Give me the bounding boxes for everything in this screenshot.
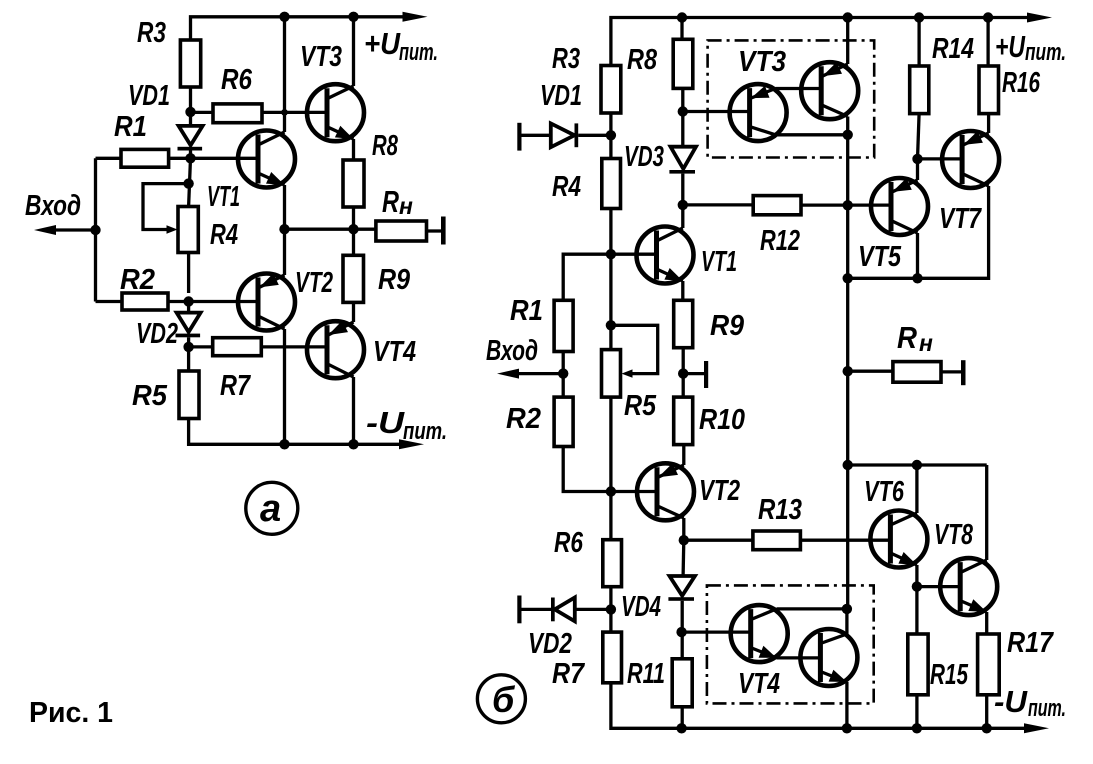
output junction VT1/VT2 emitters (a): [279, 224, 289, 234]
node R4/R1/VT1 base (б): [606, 249, 616, 259]
R5 wiper arrow (б): [622, 369, 633, 377]
wire VT8 collector up (б): [985, 465, 988, 560]
label R8 (б): [627, 44, 658, 76]
wire VT3b collector to junction (б): [846, 117, 849, 135]
node VT2 collector/R13/VD4 (б): [679, 535, 689, 545]
svg-text:+U: +U: [995, 29, 1026, 64]
node R14/VT5 emitter/VT7 base (б): [912, 154, 922, 164]
wire R9 to terminal node (б): [682, 348, 685, 397]
transistor VT1 (б): [637, 227, 694, 284]
svg-text:R3: R3: [552, 43, 580, 75]
label R3 (б): [552, 43, 580, 75]
node R2/VT2 base (б): [606, 486, 616, 496]
label Вход (a): [25, 190, 81, 222]
label VD1 (a): [128, 80, 170, 112]
wire node to VT7 base (б): [918, 157, 964, 160]
label VT8 (б): [934, 519, 974, 551]
label VD3 (б): [624, 141, 664, 173]
node R3/R6/VD1 (a): [185, 107, 195, 117]
resistor R17 (б): [978, 634, 1000, 695]
label R14 (б): [932, 33, 974, 65]
label R1 (a): [114, 111, 147, 143]
output node line (a): [285, 228, 376, 231]
junction -U rail / R17 (б): [982, 723, 992, 733]
svg-text:VT6: VT6: [864, 476, 905, 508]
node R2 / VD2 (a): [183, 296, 193, 306]
svg-text:VT1: VT1: [701, 246, 737, 278]
circuit label (б): [477, 675, 525, 723]
label R12 (б): [760, 225, 800, 257]
diode VD4 (б): [668, 540, 695, 659]
svg-text:б: б: [492, 679, 516, 720]
wire VT1 collector to +U rail (a): [283, 17, 286, 132]
svg-text:VT3: VT3: [738, 46, 786, 78]
junction R6 line / VT1 collector column (a): [281, 109, 288, 116]
wire VT3b emitter to rail (б): [846, 18, 849, 65]
svg-text:пит.: пит.: [403, 418, 447, 445]
transistor VT6 (б): [870, 511, 927, 568]
svg-text:VD2: VD2: [136, 318, 178, 350]
wire R12 from VD3 node (б): [683, 203, 753, 206]
resistor R3 (б): [601, 66, 621, 114]
label R17 (б): [1007, 627, 1055, 659]
power rail -Uпит (б): [611, 683, 1049, 734]
wire VT1 collector to VD3 node (б): [681, 205, 684, 228]
wire node to R6 (a): [191, 111, 214, 114]
svg-text:R: R: [897, 320, 918, 355]
label R10 (б): [699, 404, 745, 436]
transistor VT3 first half (б): [730, 84, 787, 141]
composite transistor box VT3 (б): [708, 40, 875, 157]
wire rail to R14 (б): [917, 18, 920, 67]
input left column (a): [94, 158, 97, 301]
resistor R9 (б): [674, 300, 693, 347]
svg-text:R8: R8: [627, 44, 658, 76]
svg-text:VD3: VD3: [624, 141, 664, 173]
svg-text:R8: R8: [372, 130, 399, 162]
wire R12 to VT5 base (б): [801, 203, 892, 206]
wire feedback to R4 wiper (a): [143, 184, 189, 230]
wire R2 line / VT2 base (a): [96, 300, 258, 303]
wire node to VT3a base (б): [683, 110, 750, 113]
wire VT8 emitter to R17 (б): [985, 612, 988, 634]
svg-text:Рис. 1: Рис. 1: [29, 697, 113, 729]
junction -U rail / VT4 collector (a): [348, 439, 358, 449]
svg-text:н: н: [399, 193, 413, 219]
label VT6 (б): [864, 476, 905, 508]
label VT4 (a): [373, 336, 416, 368]
resistor R6 (a): [213, 104, 262, 123]
svg-text:R9: R9: [710, 310, 744, 342]
wire VT2 collector to -U rail (a): [283, 329, 286, 444]
label Вход (б): [486, 335, 538, 367]
mid line VT5/VT7 collectors to output (б): [848, 277, 918, 280]
node R9/R10 terminal (б): [678, 368, 688, 378]
wire rail to R8 (б): [680, 18, 683, 40]
svg-text:R7: R7: [220, 370, 252, 402]
resistor R2 (a): [122, 293, 168, 310]
Rн output terminal (a): [427, 217, 446, 245]
junction output column / R12-VT5 line (б): [843, 200, 853, 210]
junction -U rail / R15 (б): [912, 723, 922, 733]
label R7 (a): [220, 370, 252, 402]
resistor R8 (б): [673, 39, 693, 88]
wire R17 to -U rail (б): [985, 695, 988, 729]
wire output node to Rн (б): [848, 370, 893, 373]
wire R7 to VT4 base (a): [261, 345, 327, 348]
wire R4 to R2 node (a): [187, 253, 190, 294]
transistor VT5 (б): [871, 178, 928, 235]
junction VT4 collector column (б): [842, 604, 852, 614]
transistor VT7 (б): [942, 131, 999, 188]
label R1 (б): [510, 295, 543, 327]
junction on +U rail above VT1 collector (a): [279, 12, 289, 22]
wire R11 to -U rail (б): [681, 707, 684, 729]
label R6 (б): [554, 527, 584, 559]
junction VT5 collector / mid line (б): [912, 273, 922, 283]
svg-text:R4: R4: [210, 219, 238, 251]
output junction R8/R9/Rн (a): [348, 224, 358, 234]
wire R5 to R6 (б): [609, 397, 612, 540]
resistor R1 (a): [121, 149, 169, 167]
label VT3 (a): [300, 41, 342, 73]
wire R6 to VD2 node (б): [609, 587, 612, 632]
transistor VT3 second half (б): [801, 62, 858, 119]
resistor R16 (б): [979, 66, 999, 114]
diode VD1 with input terminal (б): [517, 123, 611, 151]
svg-text:VT4: VT4: [373, 336, 416, 368]
wire VT4b emitter to -U rail (б): [845, 682, 848, 728]
resistor R15 (б): [908, 634, 928, 695]
wire VT2 emitter to R10 (б): [682, 445, 685, 465]
wire R3 to VD1 node (б): [609, 113, 612, 159]
label VT1 (a): [207, 181, 240, 213]
label VD2 (a): [136, 318, 178, 350]
label Rн (a): [382, 184, 413, 219]
wire VT2 collector to R13 node (б): [682, 518, 685, 540]
wire R1 corner to VT1 base (б): [563, 254, 656, 300]
svg-text:R1: R1: [114, 111, 147, 143]
wire node to R7 (a): [189, 345, 213, 348]
junction output column / VT5-VT7 collectors line (б): [843, 273, 853, 283]
svg-text:R5: R5: [132, 380, 168, 412]
resistor R10 (б): [674, 397, 693, 445]
label R5 (б): [624, 390, 657, 422]
label R3 (a): [137, 17, 166, 49]
input wire Вход (a): [34, 225, 96, 235]
transistor VT4 second half (б): [800, 629, 857, 686]
label VD1 (б): [540, 80, 582, 112]
node R5 top / wiper loop (б): [606, 320, 616, 330]
svg-text:VT4: VT4: [738, 668, 780, 700]
svg-text:R9: R9: [378, 264, 410, 296]
svg-text:R7: R7: [552, 658, 586, 690]
wire R1 to R2 (б): [562, 352, 565, 398]
wire VT1 emitter to output node (a): [283, 185, 286, 229]
wire VT1-base node to R5 (б): [609, 254, 612, 349]
wire VT4 collector to -U rail (a): [352, 377, 355, 444]
label VT5 (б): [858, 241, 902, 273]
label +Uпит (circuit a): [364, 26, 438, 66]
junction -U rail / VT4 column (б): [842, 723, 852, 733]
junction output column / Rн (б): [843, 366, 853, 376]
wire VT6 collector up (б): [915, 465, 918, 513]
wire VT3 emitter to R8 (a): [352, 139, 355, 160]
svg-text:R6: R6: [554, 527, 584, 559]
wire VD1 node to R4 (a): [189, 158, 191, 206]
wire VT7 collector to mid line (б): [918, 186, 989, 278]
svg-text:R2: R2: [120, 264, 155, 296]
wire VT3a collector to column (б): [776, 133, 848, 136]
wire R1 line / VT1 base (a): [96, 157, 260, 160]
load resistor Rн (б): [893, 362, 941, 383]
wire R13 to VT6 base (б): [800, 539, 891, 542]
label R9 (a): [378, 264, 410, 296]
wire VT7 emitter to R16 (б): [987, 114, 990, 133]
label R4 (б): [552, 171, 581, 203]
load resistor Rн (a): [376, 221, 427, 241]
svg-text:а: а: [260, 488, 281, 530]
svg-text:R15: R15: [930, 659, 969, 691]
label R9 (б): [710, 310, 744, 342]
svg-text:R10: R10: [699, 404, 745, 436]
resistor R8 (a): [343, 160, 364, 207]
wire VT4a collector to column (б): [777, 607, 847, 610]
resistor R14 (б): [910, 66, 929, 114]
node R8/VD3/VT3-base (б): [678, 106, 688, 116]
junction VT6 collector / line (б): [912, 460, 922, 470]
svg-text:R11: R11: [627, 658, 665, 690]
label Rн (б): [897, 320, 933, 356]
wire VT4a emitter to VT4b base (б): [777, 656, 821, 659]
wire R8 to VD3 (б): [681, 88, 684, 146]
label +Uпит (б): [995, 29, 1066, 66]
diode VD3 (б): [669, 147, 696, 205]
wire R2 corner to VT2 base (б): [563, 447, 657, 492]
wire R4 to VT1 base node (б): [609, 209, 612, 255]
junction +U rail / VT3 column (б): [843, 12, 853, 22]
label VT1 (б): [701, 246, 737, 278]
label R8 (a): [372, 130, 399, 162]
svg-text:н: н: [919, 330, 933, 356]
R4 wiper arrow (a): [167, 225, 178, 233]
label -Uпит (б): [994, 684, 1066, 722]
wire R9 to output node (a): [352, 229, 355, 255]
svg-text:Вход: Вход: [486, 335, 538, 367]
svg-text:пит.: пит.: [1028, 695, 1066, 722]
resistor R7 (a): [213, 338, 262, 356]
svg-text:VT8: VT8: [934, 519, 974, 551]
junction +U rail / R16 (б): [983, 12, 993, 22]
potentiometer R5 (б): [602, 350, 621, 398]
wire R15 to -U rail (б): [915, 695, 918, 729]
label VT3 (б): [738, 46, 786, 78]
Rн terminal (б): [941, 360, 966, 385]
svg-text:R14: R14: [932, 33, 974, 65]
resistor R7 (б): [603, 632, 622, 683]
junction +U rail / R14 (б): [914, 12, 924, 22]
svg-text:R5: R5: [624, 390, 657, 422]
svg-text:R16: R16: [1002, 67, 1041, 99]
power rail -Uпит (a): [189, 419, 424, 450]
line VT6/VT8 collectors to output (б): [847, 463, 987, 466]
wire VT3a emitter to VT3b base (б): [776, 87, 822, 90]
svg-text:+U: +U: [364, 26, 401, 61]
svg-text:VT7: VT7: [939, 203, 982, 235]
wire node to VT8 base (б): [917, 585, 961, 588]
resistor R9 (a): [343, 255, 364, 302]
junction +U rail / R8 (б): [677, 12, 687, 22]
label VT4 (б): [738, 668, 780, 700]
wire VT6 emitter to VT8 base node (б): [915, 565, 918, 587]
svg-text:пит.: пит.: [399, 39, 438, 66]
diode VD2 (a): [176, 302, 201, 348]
svg-text:VD1: VD1: [128, 80, 170, 112]
svg-text:VD2: VD2: [528, 628, 572, 660]
wire VT1 emitter to R9 (б): [681, 281, 684, 300]
wire VT3 collector to +U rail (a): [352, 17, 355, 86]
node VD4 / VT4a base (б): [676, 627, 686, 637]
junction -U rail / R11 (б): [676, 723, 686, 733]
svg-text:VT1: VT1: [207, 181, 240, 213]
wire node to R13 (б): [684, 539, 753, 542]
label R16 (б): [1002, 67, 1041, 99]
svg-text:VT3: VT3: [300, 41, 342, 73]
wire node to R15 (б): [915, 587, 918, 634]
label R2 (a): [120, 264, 155, 296]
wire VT2 emitter to output node (a): [283, 229, 286, 275]
svg-text:R12: R12: [760, 225, 800, 257]
transistor VT1 (a): [238, 131, 295, 188]
svg-text:R17: R17: [1007, 627, 1055, 659]
label -Uпит (a): [366, 405, 447, 445]
transistor VT2 (б): [637, 463, 694, 520]
input node (a): [90, 225, 100, 235]
resistor R4 (б): [602, 159, 621, 209]
caption Рис. 1: [29, 697, 113, 729]
circuit label (а): [246, 482, 298, 534]
junction on +U rail above VT3 collector (a): [348, 12, 358, 22]
wire R6 to VT3 base (a): [262, 111, 328, 114]
label R5 (a): [132, 380, 168, 412]
composite transistor box VT4 (б): [707, 585, 874, 703]
svg-text:VT5: VT5: [858, 241, 902, 273]
label R2 (б): [506, 403, 541, 435]
svg-text:R2: R2: [506, 403, 541, 435]
label R11 (б): [627, 658, 665, 690]
wire R14 to node (б): [918, 114, 920, 159]
transistor VT8 (б): [940, 558, 997, 615]
svg-text:Вход: Вход: [25, 190, 81, 222]
resistor R13 (б): [753, 531, 801, 550]
transistor VT4 (a): [307, 321, 364, 379]
label R13 (б): [758, 494, 802, 526]
svg-text:VT2: VT2: [295, 267, 333, 299]
label VD4 (б): [621, 591, 661, 623]
node VD3 / R12 / VT1 collector (б): [678, 200, 688, 210]
resistor R11 (б): [672, 659, 692, 707]
transistor VT2 (a): [238, 273, 295, 330]
wire VD2 node to R5 (a): [187, 347, 190, 371]
svg-text:R: R: [382, 184, 399, 219]
terminal at R9/R10 node (б): [683, 361, 708, 388]
svg-text:R13: R13: [758, 494, 802, 526]
wire rail to R16 (б): [986, 18, 989, 67]
svg-text:пит.: пит.: [1025, 39, 1066, 66]
svg-text:R3: R3: [137, 17, 166, 49]
resistor R5 (a): [179, 371, 199, 419]
resistor R1 (б): [554, 300, 573, 351]
label R6 (a): [221, 64, 253, 96]
junction VT3 collector column (б): [843, 130, 853, 140]
node VD1/R3/R4 (б): [606, 130, 616, 140]
label R7 (б): [552, 658, 586, 690]
resistor R12 (б): [753, 196, 801, 215]
input wire Вход (б): [497, 369, 563, 379]
wire VT5 emitter to R14 node (б): [916, 159, 919, 180]
svg-text:VT2: VT2: [699, 475, 740, 507]
diode VD2 with input terminal (б): [517, 596, 611, 624]
node VD2 / R7 / R5 (a): [183, 342, 193, 352]
node VT6 emitter/VT8 base/R15 (б): [912, 581, 922, 591]
label R15 (б): [930, 659, 969, 691]
svg-text:VD4: VD4: [621, 591, 661, 623]
label VT2 (a): [295, 267, 333, 299]
resistor R3 (a): [180, 40, 200, 87]
output column (б): [846, 135, 849, 609]
diode VD1 (a): [178, 126, 203, 158]
resistor R6 (б): [603, 540, 622, 587]
junction output column / VT6-VT8 line (б): [843, 460, 853, 470]
transistor VT3 (a): [307, 84, 364, 141]
svg-text:R1: R1: [510, 295, 543, 327]
potentiometer R4 (a): [178, 207, 198, 253]
wire VT4b collector to junction (б): [845, 609, 848, 634]
svg-text:-U: -U: [366, 405, 406, 440]
label VT7 (б): [939, 203, 982, 235]
transistor VT4 first half (б): [731, 605, 788, 662]
node above R4 (a): [183, 178, 193, 188]
resistor R2 (б): [554, 397, 573, 446]
wire node to VT4a base (б): [682, 630, 751, 633]
power rail +Uпит (circuit a): [191, 12, 428, 40]
svg-text:R4: R4: [552, 171, 581, 203]
wire R8 to output node (a): [352, 207, 355, 229]
node VD2/R6/R7 (б): [606, 604, 616, 614]
svg-text:VD1: VD1: [540, 80, 582, 112]
input node (б): [558, 368, 568, 378]
label R4 (a): [210, 219, 238, 251]
svg-text:R6: R6: [221, 64, 253, 96]
power rail +Uпит (б): [611, 13, 1052, 66]
node VD1 cathode / base line (a): [185, 153, 195, 163]
wire VT5 collector down (б): [916, 233, 919, 278]
R5 wiper loop (б): [611, 325, 658, 373]
label VT2 (б): [699, 475, 740, 507]
label VD2 (б): [528, 628, 572, 660]
junction -U rail / VT2 collector (a): [279, 439, 289, 449]
wire R3 to VD1 node (a): [189, 87, 192, 126]
wire VT4 emitter to R9 (a): [352, 302, 355, 322]
